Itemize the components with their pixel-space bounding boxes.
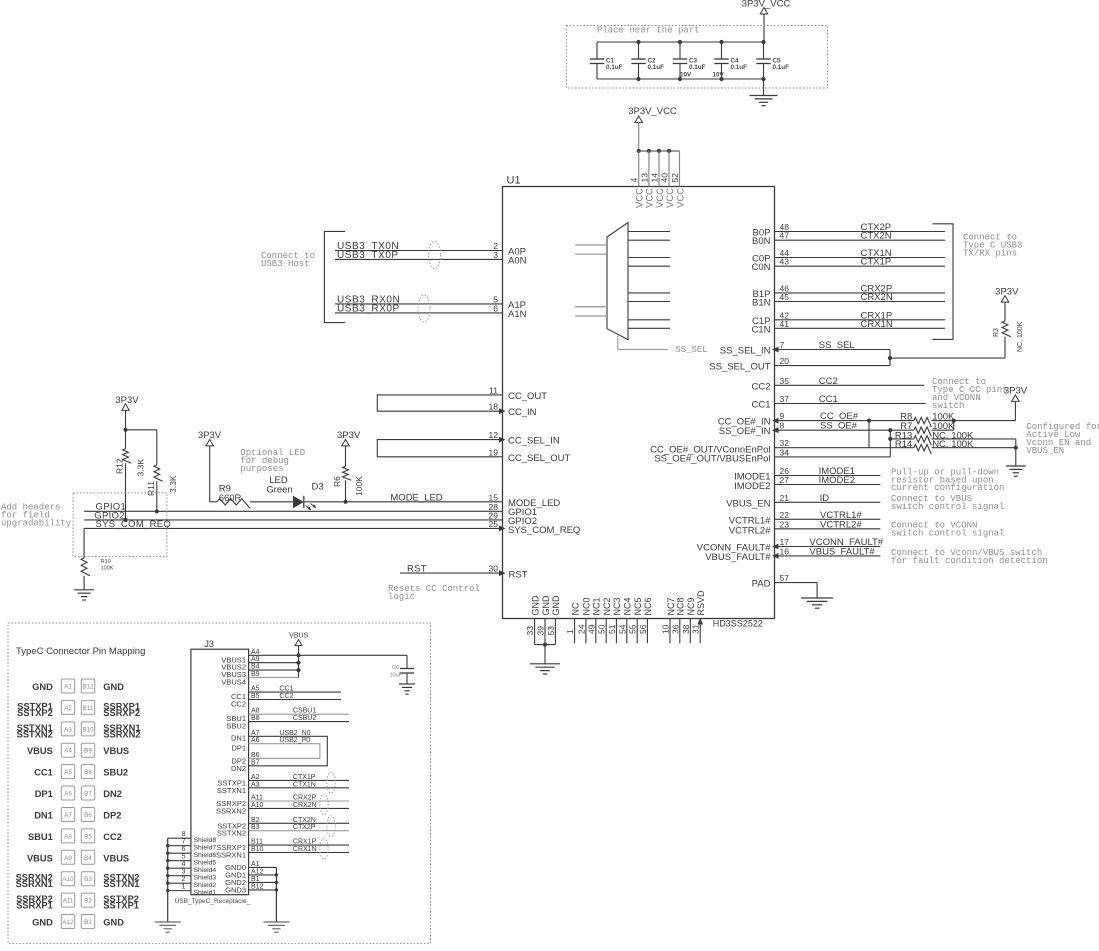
svg-text:CTX1N: CTX1N: [293, 781, 316, 788]
wire USB3_RX0P: [335, 312, 503, 314]
svg-text:SS_SEL_IN: SS_SEL_IN: [720, 346, 771, 357]
wire to decoupling ground: [763, 79, 765, 96]
wire VCTRL1#: [775, 518, 881, 520]
svg-text:SS_SEL: SS_SEL: [675, 345, 707, 355]
wire 3P3V_VCC stem: [638, 123, 640, 152]
wire CTX1P: [775, 265, 946, 267]
J3 pin B12 designator: [251, 883, 264, 890]
stub NC pin 1: [574, 619, 576, 644]
svg-text:Shield4: Shield4: [194, 867, 217, 874]
svg-text:CC_SEL_OUT: CC_SEL_OUT: [508, 453, 570, 464]
wire GPIO1: [84, 510, 502, 512]
svg-text:HD3SS2522: HD3SS2522: [713, 619, 763, 629]
svg-text:CSBU2: CSBU2: [293, 715, 316, 722]
svg-text:B10: B10: [251, 846, 264, 853]
pin 52 number: [670, 173, 680, 183]
net label USB2_N0: [279, 730, 310, 737]
svg-text:SS_OE#_OUT/VBUSEnPol: SS_OE#_OUT/VBUSEnPol: [654, 454, 770, 465]
pin 38 name NC9: [686, 597, 696, 615]
table row A12/B1: [32, 915, 124, 929]
diff pair ellipse TX1 (J3): [327, 772, 335, 793]
J3 pin name SSTXP1: [217, 778, 246, 787]
pin 12 input arrow: [499, 437, 506, 443]
svg-text:SS_SEL: SS_SEL: [819, 340, 855, 351]
pin 9 input arrow: [772, 418, 779, 424]
svg-text:47: 47: [780, 231, 790, 241]
svg-text:B2: B2: [84, 898, 92, 905]
pin 21 number: [780, 493, 790, 503]
svg-text:57: 57: [780, 573, 790, 583]
svg-text:B11: B11: [251, 839, 263, 846]
pin 42 name C1P: [752, 316, 770, 327]
wire J3 VBUS2 (A9): [249, 662, 299, 664]
wire VCC pin 14: [658, 151, 660, 187]
svg-text:SBU1: SBU1: [28, 832, 53, 842]
J3 pin name SSRXP2: [216, 799, 246, 808]
svg-text:VCC: VCC: [675, 188, 686, 208]
svg-text:MODE_LED: MODE_LED: [390, 492, 442, 503]
svg-text:ID: ID: [820, 493, 830, 504]
wire J3 Shield7 (pin 7): [168, 845, 191, 847]
stub NC0 pin 24: [585, 619, 587, 644]
svg-text:NC0: NC0: [582, 597, 592, 615]
resistor R12 3.3K: [115, 430, 146, 520]
pin 45 number: [780, 292, 790, 302]
wire SS_OE# join: [889, 430, 891, 457]
svg-text:CC1: CC1: [751, 400, 770, 411]
pin 56 name NC6: [643, 597, 653, 615]
stub NC8 pin 36: [679, 619, 681, 644]
svg-text:7: 7: [182, 839, 186, 846]
J3 pin name DP2: [231, 756, 246, 765]
svg-text:0.1uF: 0.1uF: [731, 64, 748, 71]
net label CRX1P (J3): [293, 839, 317, 846]
svg-text:SSRXN1: SSRXN1: [16, 879, 53, 889]
svg-text:B7: B7: [251, 759, 260, 766]
label D3: [312, 481, 324, 492]
pin 12 number: [489, 430, 499, 440]
wire J3 Shield4 (pin 4): [168, 867, 191, 869]
svg-text:16: 16: [780, 546, 790, 556]
power 3P3V (R3): [995, 287, 1019, 303]
pin 37 number: [780, 394, 790, 404]
net label CSBU1: [293, 708, 316, 715]
wire SS_SEL (pin 7): [775, 349, 891, 351]
ground (decoupling): [750, 96, 778, 106]
junction dot pin8: [888, 428, 892, 432]
svg-text:B12: B12: [251, 883, 264, 890]
pin 55 name NC5: [633, 597, 643, 615]
pin 17 name VCONN_FAULT#: [697, 543, 771, 554]
net label IMODE1: [819, 466, 855, 477]
pin 24 name NC0: [582, 597, 592, 615]
pin 1 number: [565, 629, 575, 634]
power 3P3V_VCC (top): [742, 0, 791, 14]
svg-text:40: 40: [660, 173, 670, 183]
J3 pin B11 designator: [251, 839, 263, 846]
label J3: [204, 639, 214, 649]
wire J3 GND3 (B12): [249, 889, 277, 891]
svg-text:VBUS: VBUS: [27, 746, 53, 756]
wire CC_OE# (pin 9): [775, 420, 914, 422]
svg-text:Green: Green: [266, 485, 292, 496]
J3 pin A7 designator: [251, 730, 260, 737]
svg-text:SBU2: SBU2: [226, 722, 246, 731]
junction dots VCC rail: [637, 149, 672, 153]
pin 39 name GND: [541, 595, 551, 616]
pin 29 name GPIO2: [508, 516, 537, 527]
svg-text:B1: B1: [251, 876, 260, 883]
svg-text:50: 50: [597, 624, 607, 634]
pin 55 number: [628, 624, 638, 634]
note: Connect to VBUS switch: [891, 494, 1004, 512]
pin 27 number: [780, 475, 790, 485]
ground (J3 gnd): [263, 922, 289, 932]
wire USB3_TX0N: [335, 250, 503, 252]
pin 21 name VBUS_EN: [726, 498, 770, 509]
wire J3 VBUS1 (A4): [249, 654, 299, 656]
svg-text:36: 36: [670, 624, 680, 634]
svg-text:A5: A5: [251, 686, 260, 693]
J3 pin name SSRXN2: [216, 806, 246, 815]
svg-text:A1: A1: [251, 861, 260, 868]
svg-text:9: 9: [780, 411, 785, 421]
svg-text:660R: 660R: [219, 493, 242, 504]
svg-text:SSTXP2: SSTXP2: [17, 708, 53, 718]
connector J3 body: [191, 649, 249, 895]
net label GPIO1: [96, 502, 127, 513]
svg-text:SSTXN2: SSTXN2: [217, 829, 246, 838]
svg-text:CC_OUT: CC_OUT: [508, 391, 547, 402]
svg-text:CC2: CC2: [103, 832, 122, 842]
note: Configured for Active Low: [1026, 422, 1099, 456]
svg-text:3P3V_VCC: 3P3V_VCC: [742, 0, 791, 10]
power VBUS: [289, 633, 308, 646]
diff pair ellipse TX2 (J3): [327, 816, 335, 837]
wire VBUS stem: [298, 646, 300, 656]
wire RST: [400, 572, 503, 574]
resistor R6 100K: [332, 446, 364, 502]
wire J3 Shield1 (pin 1): [168, 890, 191, 892]
capacitor C5 0.1uF: [756, 42, 789, 79]
table row A7/B6: [34, 807, 121, 821]
wire VBUS to C6: [299, 654, 408, 656]
svg-text:A2: A2: [64, 705, 72, 712]
J3 pin A6 designator: [251, 737, 260, 744]
svg-text:R3: R3: [993, 328, 1000, 337]
svg-text:3P3V: 3P3V: [337, 430, 361, 441]
wire J3 Shield5 (pin 5): [168, 860, 191, 862]
pin 5 name A1P: [508, 300, 526, 311]
svg-text:3: 3: [182, 869, 186, 876]
stub NC6 pin 56: [646, 619, 648, 644]
pin 3 number: [493, 250, 498, 260]
J3 pin name SBU1: [226, 714, 246, 723]
J3 pin A2 designator: [251, 774, 260, 781]
wire IMODE1: [775, 475, 881, 477]
svg-text:33: 33: [525, 626, 535, 636]
svg-text:USB3 Host: USB3 Host: [261, 259, 310, 269]
J3 pin name Shield2: [194, 882, 217, 889]
svg-text:NC, 100K: NC, 100K: [932, 439, 974, 450]
label 10V (C4): [713, 72, 725, 79]
pin 34 number: [780, 447, 790, 457]
pin 35 number: [780, 376, 790, 386]
svg-text:C1N: C1N: [751, 324, 770, 335]
svg-text:D3: D3: [312, 481, 324, 492]
pin 17 input arrow: [772, 544, 779, 550]
power 3P3V_VCC (U1 VCC): [628, 106, 677, 123]
junction dot R14 gnd node: [1014, 446, 1018, 450]
svg-text:Shield1: Shield1: [194, 890, 217, 897]
svg-text:8: 8: [182, 831, 186, 838]
wire SYS_COM_REQ: [84, 527, 502, 529]
svg-text:SSRXP2: SSRXP2: [103, 708, 140, 718]
pin 41 name C1N: [751, 324, 770, 335]
svg-text:A11: A11: [63, 898, 74, 905]
wire J3 SSRXN1 CRX1N (B10): [249, 852, 349, 854]
J3 pin name SSTXN1: [217, 786, 246, 795]
wire J3 CC2 (B5): [249, 699, 341, 701]
pin 31 number: [691, 624, 701, 634]
pin 19 name CC_SEL_OUT: [508, 453, 570, 464]
J3 pin name Shield7: [194, 845, 217, 852]
svg-text:A4: A4: [64, 748, 72, 755]
pin 20 name SS_SEL_OUT: [709, 362, 770, 373]
svg-text:A0N: A0N: [508, 255, 527, 266]
svg-text:VBUS_FAULT#: VBUS_FAULT#: [705, 552, 771, 563]
wire SS_OE#_OUT (pin 34): [775, 456, 891, 458]
J3 pin name VBUS4: [221, 677, 246, 686]
net label CRX1N: [861, 319, 893, 330]
wire GND pin 53: [554, 619, 556, 645]
svg-text:TypeC Connector Pin Mapping: TypeC Connector Pin Mapping: [16, 646, 145, 657]
J3 pin A8 designator: [251, 708, 260, 715]
pin 33 name GND: [530, 595, 540, 616]
net label USB3_TX0P: [337, 250, 399, 261]
net label CTX1P: [861, 257, 892, 268]
pin 35 name CC2: [751, 381, 770, 392]
J3 pin B4 designator: [251, 664, 260, 671]
pin 11 name CC_OUT: [508, 391, 547, 402]
net label CRX2N: [861, 292, 893, 303]
svg-text:VCC: VCC: [665, 188, 676, 208]
pin 18 input arrow: [499, 408, 506, 414]
wire J3 VBUS4 (B9): [249, 676, 299, 678]
svg-text:4: 4: [182, 861, 186, 868]
wire D3 to pin 15: [304, 501, 503, 503]
svg-text:B1: B1: [84, 919, 92, 926]
note: Optional LED for debug purposes: [240, 448, 305, 474]
svg-text:10V: 10V: [680, 72, 692, 79]
svg-text:J3: J3: [204, 639, 214, 649]
J3 pin name SSRXN1: [216, 851, 246, 860]
pin 44 name C0P: [752, 254, 770, 265]
pin 26 name IMODE1: [734, 472, 770, 483]
svg-text:GND: GND: [32, 682, 53, 692]
pin 33 number: [525, 626, 535, 636]
svg-text:VCTRL2#: VCTRL2#: [820, 519, 862, 530]
J3 pin name DN2: [231, 764, 246, 773]
wire CC_OUT to CC_IN loop: [377, 395, 502, 411]
J3 pin B2 designator: [251, 817, 260, 824]
pin 48 name B0P: [753, 228, 771, 239]
J3 pin B10 designator: [251, 846, 264, 853]
J3 pin name VBUS3: [221, 670, 246, 679]
svg-text:CRX2N: CRX2N: [293, 802, 317, 809]
pin 15 number: [489, 492, 499, 502]
svg-text:RST: RST: [407, 564, 427, 575]
wire J3 GND1 (A12): [249, 874, 277, 876]
wire R8 node to 3P3V: [952, 419, 1016, 423]
J3 pin name Shield6: [194, 852, 217, 859]
svg-text:VBUS: VBUS: [27, 853, 53, 863]
LED D3: [293, 496, 316, 510]
net label CTX2N (J3): [293, 817, 316, 824]
wire CC1: [775, 403, 926, 405]
svg-text:10V: 10V: [713, 72, 725, 79]
J3 pin 8 number: [182, 831, 186, 838]
J3 pin name SSTXN2: [217, 829, 246, 838]
resistor R8 100K: [900, 412, 955, 427]
svg-text:GND: GND: [541, 595, 551, 616]
pin 5 number: [493, 294, 498, 304]
table row A9/B4: [27, 850, 129, 864]
wire VBUS_FAULT#: [775, 555, 881, 557]
svg-text:USB3_TX0P: USB3_TX0P: [337, 250, 399, 261]
svg-text:NC9: NC9: [686, 597, 696, 615]
J3 pin name VBUS1: [221, 655, 246, 664]
svg-text:3: 3: [493, 250, 498, 260]
J3 pin name GND3: [225, 885, 246, 894]
pin 26 number: [780, 466, 790, 476]
junction dots decoupling rails: [636, 40, 765, 81]
svg-text:100K: 100K: [354, 476, 364, 496]
wire CTX1N: [775, 257, 946, 259]
pin 30 number: [489, 564, 499, 574]
svg-text:DP2: DP2: [103, 810, 121, 820]
pin 2 name A0P: [508, 247, 526, 258]
svg-text:Shield5: Shield5: [194, 860, 217, 867]
J3 pin 7 number: [182, 839, 186, 846]
svg-text:3P3V: 3P3V: [995, 287, 1019, 298]
svg-text:38: 38: [681, 624, 691, 634]
svg-text:54: 54: [617, 624, 627, 634]
svg-text:24: 24: [576, 624, 586, 634]
svg-text:GND: GND: [32, 918, 53, 928]
net label CRX2P: [861, 283, 893, 294]
dotted box: place near the part: [566, 26, 827, 89]
J3 pin A1 designator: [251, 861, 260, 868]
svg-text:switch: switch: [932, 401, 964, 411]
wire VCC rail: [639, 150, 680, 152]
net label USB3_TX0N: [337, 241, 399, 252]
J3 pin name DP1: [231, 744, 246, 753]
dotted box: TypeC pin mapping: [8, 623, 431, 943]
svg-text:18: 18: [489, 402, 499, 412]
pin 8 number: [780, 421, 785, 431]
wire 3P3V to R8 node: [1014, 401, 1016, 420]
pin 23 name VCTRL2#: [729, 525, 771, 536]
svg-text:51: 51: [607, 624, 617, 634]
wire J3 SSTXP1 CTX1P (A2): [249, 779, 349, 781]
svg-text:Shield3: Shield3: [194, 875, 217, 882]
svg-text:53: 53: [546, 626, 556, 636]
pin 13 number: [639, 173, 649, 183]
pin 30 input arrow: [499, 570, 506, 576]
svg-text:NC3: NC3: [612, 597, 622, 615]
svg-text:43: 43: [780, 257, 790, 267]
wire CC2: [775, 384, 925, 386]
net label GPIO2: [94, 510, 125, 521]
capacitor C1 0.1uF: [590, 42, 623, 79]
svg-text:8: 8: [780, 421, 785, 431]
svg-text:A6: A6: [64, 791, 72, 798]
wire 3P3V pullup stem: [123, 410, 127, 432]
svg-text:USB2_P0: USB2_P0: [279, 737, 310, 744]
svg-text:VCTRL2#: VCTRL2#: [729, 525, 771, 536]
J3 pin name DN1: [231, 733, 246, 742]
svg-text:A9: A9: [251, 656, 260, 663]
label SS_SEL (mux, gray): [675, 345, 707, 355]
svg-text:SSRXN2: SSRXN2: [103, 729, 140, 739]
svg-text:CTX1P: CTX1P: [861, 257, 892, 268]
svg-text:37: 37: [780, 394, 790, 404]
wire SS_OE# (pin 8): [775, 429, 914, 431]
pin 8 name SS_OE#_IN: [719, 426, 771, 437]
svg-text:VBUS: VBUS: [289, 633, 308, 640]
pin 2 number: [493, 241, 498, 251]
pin 44 number: [780, 248, 790, 258]
resistor R10 100K: [81, 528, 114, 589]
svg-text:B3: B3: [84, 876, 92, 883]
pin 17 number: [780, 537, 790, 547]
svg-text:CC_SEL_IN: CC_SEL_IN: [508, 436, 560, 447]
note: Place near the part: [597, 26, 700, 36]
net label CC1 (J3): [279, 686, 293, 693]
J3 pin B7 designator: [251, 759, 260, 766]
J3 pin name VBUS2: [221, 663, 246, 672]
J3 pin name Shield1: [194, 890, 217, 897]
svg-text:39: 39: [536, 626, 546, 636]
ground (shield): [155, 922, 181, 932]
svg-text:VBUS_EN: VBUS_EN: [726, 498, 770, 509]
wire CC_SEL_IN to CC_SEL_OUT loop: [377, 440, 502, 457]
resistor R7 100K: [900, 421, 955, 437]
svg-text:GND: GND: [551, 595, 561, 616]
wire GPIO2: [84, 519, 502, 521]
svg-text:VBUS_FAULT#: VBUS_FAULT#: [809, 546, 875, 557]
svg-text:SSTXN1: SSTXN1: [103, 879, 139, 889]
svg-text:A9: A9: [64, 855, 72, 862]
resistor R14 NC 100K: [895, 439, 1016, 454]
svg-text:B5: B5: [84, 833, 92, 840]
svg-text:C0N: C0N: [751, 262, 770, 273]
diff pair ellipse RX1 (J3): [320, 838, 328, 859]
pin 6 name A1N: [508, 309, 527, 320]
pin 31 RSVD input arrow: [697, 618, 703, 625]
svg-text:B1N: B1N: [752, 298, 771, 309]
svg-text:VBUS: VBUS: [103, 853, 129, 863]
net label ID: [820, 493, 830, 504]
J3 pin name CC1: [231, 692, 246, 701]
pin 53 number: [546, 626, 556, 636]
label U1: [507, 175, 521, 187]
svg-text:Shield8: Shield8: [194, 837, 217, 844]
svg-text:CRX1P: CRX1P: [293, 839, 317, 846]
svg-text:R11: R11: [146, 481, 156, 496]
pin 25 name SYS_COM_REQ: [508, 525, 580, 536]
